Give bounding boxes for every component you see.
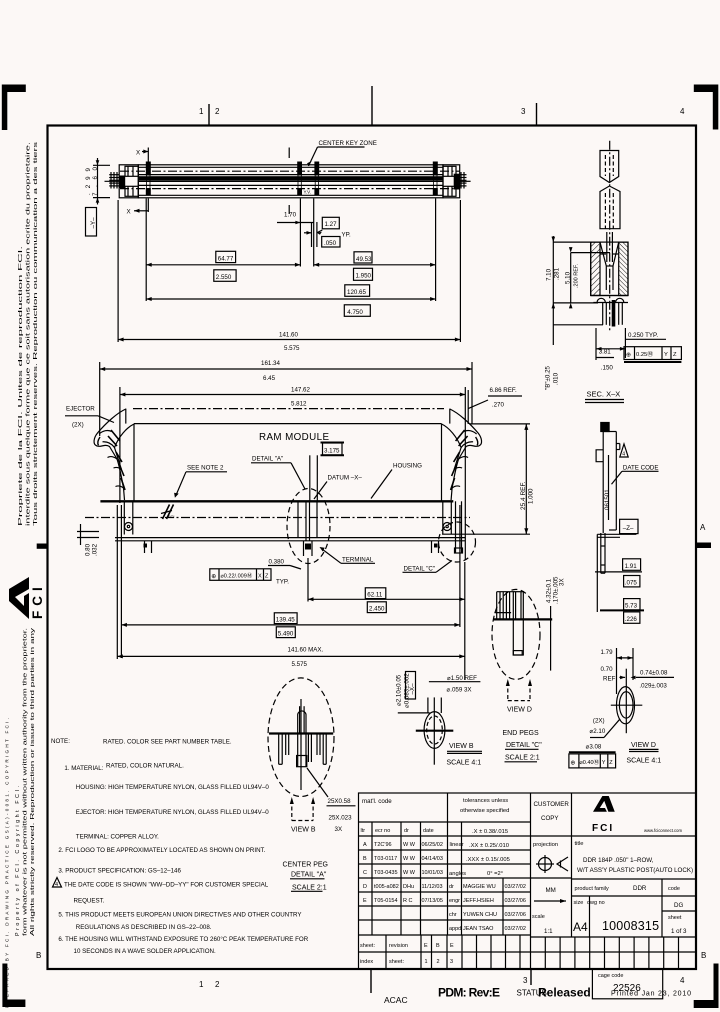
svg-text:⌀1.50 REF: ⌀1.50 REF [447, 675, 477, 682]
view B label [447, 743, 483, 767]
svg-text:1 of 3: 1 of 3 [671, 928, 687, 935]
end pegs detail circle [492, 589, 540, 679]
svg-text:DATE CODE: DATE CODE [623, 464, 659, 471]
date code profile [596, 423, 620, 534]
product family row [573, 885, 687, 935]
svg-text:form whatever is not permitted: form whatever is not permitted without w… [23, 628, 29, 936]
view D arrows bracket [506, 679, 532, 714]
view D dim 0.74 [619, 669, 674, 689]
top view left end black insert [119, 176, 125, 189]
dim line 120.65 [146, 297, 435, 301]
matl code table text [361, 798, 443, 904]
customer copy cell [534, 801, 570, 822]
svg-text:3: 3 [450, 959, 453, 965]
svg-text:appd: appd [449, 926, 461, 932]
front view housing opening [126, 409, 450, 501]
top view right end black insert [454, 174, 460, 190]
key block center 2 [314, 162, 319, 196]
svg-text:ltr: ltr [361, 828, 366, 834]
end pegs drawing [493, 592, 552, 671]
zone tick bottom edge [371, 969, 531, 993]
section line X-X vertical [148, 148, 289, 215]
frame border [48, 126, 697, 970]
svg-text:angles: angles [449, 871, 466, 877]
svg-text:06/25/02: 06/25/02 [422, 842, 443, 848]
svg-text:SEE NOTE 2: SEE NOTE 2 [187, 465, 224, 472]
svg-text:JEAN TSAO: JEAN TSAO [463, 926, 494, 932]
svg-text:SCALE 4:1: SCALE 4:1 [447, 760, 482, 767]
svg-text:B: B [701, 951, 706, 960]
zone tick right edge [697, 543, 712, 549]
french copyright text rotated [18, 141, 39, 526]
end peg right in detail C [455, 501, 463, 553]
svg-text:JEFF.HSIEH: JEFF.HSIEH [463, 898, 494, 904]
corner mark bottom-right [694, 964, 719, 1009]
svg-text:⌀3.08: ⌀3.08 [586, 743, 602, 750]
svg-text:3X: 3X [559, 578, 566, 586]
datum X label [314, 475, 362, 500]
dim 120.65/4.750 boxed [344, 285, 370, 317]
svg-text:T2C'96: T2C'96 [374, 842, 392, 848]
svg-text:Tous droits strictement reserv: Tous droits strictement reserves. Reprod… [33, 141, 39, 526]
svg-text:.XXX ± 0.15/.005: .XXX ± 0.15/.005 [466, 857, 510, 863]
svg-text:.226: .226 [625, 616, 638, 623]
svg-text:2. FCI LOGO TO BE APPROXIMATEL: 2. FCI LOGO TO BE APPROXIMATELY LOCATED … [58, 847, 265, 854]
svg-text:10/01/03: 10/01/03 [422, 870, 443, 876]
svg-text:.XX ± 0.25/.010: .XX ± 0.25/.010 [469, 843, 509, 849]
svg-text:25X.023: 25X.023 [329, 814, 353, 821]
svg-text:HOUSING: HIGH TEMPERATURE NYLO: HOUSING: HIGH TEMPERATURE NYLON, GLASS F… [76, 784, 270, 791]
svg-text:.029±.003: .029±.003 [639, 682, 667, 689]
svg-text:6. THE HOUSING WILL WITHSTAND: 6. THE HOUSING WILL WITHSTAND EXPOSURE T… [58, 936, 308, 943]
svg-text:4: 4 [680, 107, 685, 116]
svg-text:1.70: 1.70 [284, 212, 297, 219]
date code dims 1.91/.075 [595, 559, 642, 587]
housing label [371, 463, 422, 499]
dim 0.80/.032 rotated [85, 543, 99, 556]
dim 0.80/.032 ticks [77, 524, 99, 545]
svg-text:1.000: 1.000 [528, 488, 535, 504]
svg-text:10 SECONDS IN A WAVE SOLDER AP: 10 SECONDS IN A WAVE SOLDER APPLICATION. [74, 948, 217, 955]
zone numbers bottom [199, 976, 685, 989]
svg-text:ecr no: ecr no [375, 828, 390, 834]
svg-text:Printed Jan 23, 2010: Printed Jan 23, 2010 [611, 991, 691, 998]
svg-text:REGULATIONS AS DESCRIBED IN GS: REGULATIONS AS DESCRIBED IN GS–22–008. [76, 924, 212, 931]
datum Z box [620, 519, 638, 533]
svg-text:B: B [363, 856, 367, 862]
date code leg [597, 533, 636, 573]
svg-text:sheet:: sheet: [389, 959, 404, 965]
approvals text [449, 884, 526, 932]
key block center 1 [297, 162, 302, 196]
end pegs rotated dim [546, 576, 566, 604]
svg-text:⊕: ⊕ [570, 759, 575, 766]
zone tick left edge [37, 544, 48, 549]
svg-text:1. MATERIAL:: 1. MATERIAL: [64, 765, 103, 772]
svg-text:5.812: 5.812 [291, 401, 307, 408]
zone numbers top [199, 107, 685, 116]
svg-text:3. PRODUCT SPECIFICATION: GS–1: 3. PRODUCT SPECIFICATION: GS–12–146 [58, 868, 181, 875]
svg-text:RAM MODULE: RAM MODULE [259, 432, 329, 443]
svg-text:141.60: 141.60 [279, 332, 298, 339]
svg-text:161.34: 161.34 [261, 360, 280, 367]
sec x-x housing section hatched [591, 242, 628, 295]
date code text vertical [604, 489, 611, 510]
svg-text:sheet:: sheet: [360, 943, 375, 949]
svg-text:TERMINAL: COPPER ALLOY.: TERMINAL: COPPER ALLOY. [76, 834, 159, 841]
sec x-x base [591, 296, 628, 303]
scale cell [532, 914, 553, 935]
dim line 64.77 [146, 199, 300, 302]
svg-text:(2X): (2X) [593, 717, 605, 724]
svg-text:T03-0117: T03-0117 [374, 856, 397, 862]
svg-text:⌀.059 3X: ⌀.059 3X [447, 686, 472, 693]
svg-text:120.65: 120.65 [347, 289, 366, 296]
svg-text:25.4 REF.: 25.4 REF. [520, 481, 527, 510]
svg-text:linear: linear [450, 842, 464, 848]
sec x-x title [585, 390, 624, 403]
svg-text:DETAIL "C": DETAIL "C" [506, 742, 542, 749]
svg-text:2: 2 [215, 980, 220, 989]
top view left end block [105, 165, 139, 198]
center peg detail label [283, 862, 329, 892]
sec x-x centerline [609, 141, 611, 332]
key block right [433, 162, 438, 196]
svg-text:dr: dr [449, 884, 454, 890]
date code note triangle [620, 444, 628, 458]
terminal label [320, 547, 376, 564]
svg-text:code: code [668, 886, 680, 892]
svg-text:C: C [363, 870, 367, 876]
svg-text:W W: W W [403, 856, 416, 862]
Released text [538, 986, 591, 1000]
svg-text:date: date [423, 828, 434, 834]
notes text block [51, 738, 309, 955]
mounting pegs front view [145, 501, 439, 556]
svg-text:tolerances unless: tolerances unless [463, 798, 508, 804]
key slot vertical lines [147, 176, 438, 189]
top view right end block [443, 165, 471, 198]
svg-text:3.175: 3.175 [324, 448, 340, 455]
svg-text:0.74±0.08: 0.74±0.08 [640, 669, 668, 676]
sec x-x dim 3.81 [596, 328, 625, 371]
svg-text:DETAIL "C": DETAIL "C" [404, 566, 436, 573]
svg-text:cage code: cage code [598, 973, 623, 979]
svg-text:chr: chr [449, 912, 457, 918]
svg-text:1:1: 1:1 [544, 928, 553, 935]
svg-text:engr: engr [449, 898, 460, 904]
svg-text:03/27/06: 03/27/06 [505, 912, 526, 918]
datum X box rotated [406, 672, 417, 700]
detail A label [251, 456, 305, 490]
dim 1.27 typ boxed [304, 217, 351, 247]
svg-text:62.11: 62.11 [367, 591, 383, 598]
svg-text:VIEW B: VIEW B [291, 827, 316, 834]
cage code box [592, 969, 662, 999]
view D 2X labels [590, 717, 621, 737]
dim 147.62/5.812 [120, 387, 465, 561]
svg-text:COPY: COPY [541, 815, 559, 822]
corner mark top-left [2, 85, 26, 131]
svg-text:5.73: 5.73 [625, 603, 638, 610]
svg-text:sheet: sheet [668, 915, 682, 921]
svg-text:6.86 REF.: 6.86 REF. [490, 387, 517, 394]
svg-text:0.70: 0.70 [601, 666, 614, 673]
svg-text:VIEW D: VIEW D [507, 707, 532, 714]
dim line 49.53 [314, 199, 436, 302]
svg-text:X: X [136, 150, 140, 157]
left ejector [94, 409, 134, 535]
svg-text:11/12/03: 11/12/03 [422, 884, 443, 890]
svg-text:SCALE 2:1: SCALE 2:1 [505, 755, 540, 762]
svg-text:T03-0435: T03-0435 [374, 870, 398, 876]
PDM rev text [438, 986, 500, 1000]
center peg leader and 25X label [307, 768, 356, 833]
svg-text:5.575: 5.575 [284, 345, 300, 352]
svg-text:07/13/05: 07/13/05 [422, 898, 443, 904]
svg-text:MAGGIE WU: MAGGIE WU [463, 884, 496, 890]
top view centerline upper [120, 170, 460, 172]
svg-text:3X: 3X [335, 826, 343, 833]
svg-text:0.80: 0.80 [85, 543, 92, 556]
svg-text:VIEW D: VIEW D [631, 742, 656, 749]
svg-text:3.81: 3.81 [599, 348, 612, 355]
sec x-x dim B [545, 330, 560, 390]
svg-text:0.250 TYP.: 0.250 TYP. [628, 332, 658, 339]
RAM MODULE label [259, 432, 329, 443]
svg-text:1.91: 1.91 [625, 563, 638, 570]
svg-text:W/T ASS'Y PLASTIC POST(AUTO LO: W/T ASS'Y PLASTIC POST(AUTO LOCK) [577, 867, 693, 874]
note 4 triangle [53, 878, 62, 889]
svg-text:t005-a082: t005-a082 [374, 884, 399, 890]
svg-text:1: 1 [199, 980, 204, 989]
svg-text:⊕: ⊕ [211, 573, 216, 580]
svg-text:DG: DG [674, 902, 683, 909]
svg-text:END PEGS: END PEGS [503, 730, 540, 737]
detail C indicator circle [439, 522, 476, 562]
view D dims 1.79 / 0.70 REF [601, 648, 634, 694]
end pegs detail label [503, 730, 543, 762]
svg-text:2.550: 2.550 [216, 274, 232, 281]
view B arrows bracket [290, 797, 316, 834]
section arrow X bottom [127, 209, 149, 216]
sec x-x dims left [546, 236, 611, 330]
svg-text:.075: .075 [625, 580, 638, 587]
svg-text:⌀0.40Ⓜ: ⌀0.40Ⓜ [580, 758, 600, 766]
view D label [627, 742, 662, 764]
svg-text:D: D [363, 884, 367, 890]
svg-text:5. THIS PRODUCT MEETS EUROPEAN: 5. THIS PRODUCT MEETS EUROPEAN UNION DIR… [58, 912, 301, 919]
typ mark small [304, 190, 312, 195]
svg-text:7.10: 7.10 [546, 268, 553, 281]
svg-text:EJECTOR: HIGH TEMPERATURE NYLO: EJECTOR: HIGH TEMPERATURE NYLON, GLASS F… [76, 809, 269, 816]
sec x-x card in slot [607, 232, 613, 262]
key block left [146, 162, 151, 196]
zone letter B right edge [701, 951, 706, 960]
svg-text:5.575: 5.575 [292, 661, 308, 668]
svg-text:0° =2°: 0° =2° [487, 871, 503, 877]
svg-text:mat'l. code: mat'l. code [362, 798, 392, 805]
svg-text:.050: .050 [324, 240, 337, 247]
svg-text:2.450: 2.450 [369, 605, 385, 612]
svg-text:CENTER KEY ZONE: CENTER KEY ZONE [319, 140, 377, 147]
center peg detail drawing [269, 699, 333, 790]
svg-text:–Z–: –Z– [623, 525, 634, 532]
svg-text:4.750: 4.750 [347, 309, 363, 316]
corner mark top-right [694, 85, 719, 130]
date code dims 5.73/.226 [597, 534, 644, 623]
svg-text:SEC. X–X: SEC. X–X [587, 390, 621, 399]
svg-text:THE DATE CODE IS SHOWN "WW–DD–: THE DATE CODE IS SHOWN "WW–DD–YY" FOR CU… [64, 882, 269, 889]
svg-text:HOUSING: HOUSING [393, 463, 422, 470]
svg-text:EJECTOR: EJECTOR [66, 406, 95, 413]
detail A indicator circle [287, 489, 330, 564]
svg-text:DDR: DDR [633, 885, 647, 892]
dim 2.10 rotated labels [396, 673, 411, 708]
detail C label [403, 561, 453, 573]
view D 3.08 and position box [569, 743, 616, 768]
svg-text:YP.: YP. [342, 232, 351, 239]
svg-text:E: E [450, 943, 454, 949]
svg-text:size: size [574, 900, 584, 906]
ACAC stamp [384, 995, 408, 1005]
svg-text:REF: REF [603, 675, 616, 682]
svg-text:product family: product family [575, 886, 609, 892]
dim 161.34/6.45 [100, 360, 472, 436]
svg-text:Y.V.: Y.V. [304, 190, 312, 195]
svg-text:X: X [127, 209, 131, 216]
svg-text:1.27: 1.27 [325, 221, 338, 228]
sec x-x card upper [600, 151, 619, 183]
svg-text:Released: Released [538, 986, 591, 1000]
svg-text:03/27/02: 03/27/02 [505, 926, 526, 932]
svg-text:03/27/06: 03/27/06 [505, 898, 526, 904]
svg-text:RATED, COLOR NATURAL.: RATED, COLOR NATURAL. [106, 763, 184, 770]
dim 49.53/1.950 boxed [354, 252, 373, 280]
svg-text:scale: scale [532, 914, 545, 920]
svg-text:Y: Y [664, 352, 668, 358]
view B peg circles [398, 697, 454, 764]
front view lower centerline [85, 517, 470, 519]
svg-text:FCI: FCI [30, 582, 45, 619]
dim 62.11/2.450 boxed [308, 558, 465, 680]
svg-text:SCALE 4:1: SCALE 4:1 [627, 757, 662, 764]
svg-text:W W: W W [403, 870, 416, 876]
sec x-x position box [624, 347, 681, 362]
svg-text:E: E [424, 943, 428, 949]
svg-text:DETAIL "A": DETAIL "A" [252, 456, 283, 463]
svg-text:061501: 061501 [604, 489, 611, 510]
sec x-x pins [603, 303, 623, 325]
dim 139.45/5.490 boxed [121, 505, 460, 658]
svg-text:REQUEST.: REQUEST. [74, 898, 105, 905]
dim 141.60 MAX front view [117, 505, 465, 668]
svg-text:W W: W W [403, 842, 416, 848]
svg-text:.270: .270 [492, 402, 505, 409]
terminal dots [144, 544, 438, 550]
svg-text:CENTER PEG: CENTER PEG [283, 862, 329, 869]
svg-text:E: E [363, 898, 367, 904]
svg-text:141.60 MAX.: 141.60 MAX. [288, 647, 324, 654]
dim 1.70 [277, 199, 314, 267]
revision index rows [386, 935, 679, 969]
date code label [612, 464, 659, 484]
svg-text:PDM: Rev:E: PDM: Rev:E [438, 986, 500, 1000]
corner mark bottom-left [2, 964, 25, 1008]
svg-text:Z: Z [673, 352, 677, 358]
svg-text:MM: MM [546, 887, 556, 894]
svg-text:–X–: –X– [409, 683, 416, 695]
svg-text:dwg no: dwg no [587, 900, 605, 906]
svg-text:.010: .010 [553, 372, 560, 385]
english copyright text rotated [5, 627, 37, 1008]
svg-text:64.77: 64.77 [218, 255, 234, 262]
title cell [575, 841, 694, 874]
svg-text:All rights strictly reserved.: All rights strictly reserved. Reproducti… [30, 627, 36, 936]
svg-text:25X0.58: 25X0.58 [328, 798, 352, 805]
projection cell [533, 842, 568, 873]
FCI logo left edge rotated [9, 577, 45, 619]
svg-text:TYP.: TYP. [276, 579, 289, 586]
svg-text:VIEW B: VIEW B [449, 743, 474, 750]
right ejector [442, 409, 482, 535]
svg-text:0.380: 0.380 [269, 559, 285, 566]
front view card centerline [133, 408, 444, 410]
top view slot black band [138, 176, 443, 180]
svg-text:dr: dr [404, 828, 409, 834]
zone letter B left edge [36, 951, 41, 960]
svg-text:5.10: 5.10 [565, 271, 572, 284]
svg-text:4.32±0.1: 4.32±0.1 [546, 578, 553, 603]
dim 0.380 typ with position box [210, 559, 301, 586]
svg-text:B: B [436, 943, 440, 949]
svg-text:otherwise specified: otherwise specified [460, 808, 509, 814]
svg-text:.281: .281 [554, 267, 561, 280]
svg-text:A4: A4 [573, 920, 588, 934]
zone ticks top edge [209, 86, 537, 125]
svg-text:TERMINAL: TERMINAL [342, 557, 374, 564]
svg-text:49.53: 49.53 [356, 256, 372, 263]
svg-text:YUWEN CHU: YUWEN CHU [463, 912, 497, 918]
svg-text:"B"±0.25: "B"±0.25 [545, 365, 552, 390]
svg-text:1.950: 1.950 [356, 273, 372, 280]
svg-text:3: 3 [521, 107, 526, 116]
svg-text:147.62: 147.62 [291, 387, 310, 394]
svg-text:ACAC: ACAC [384, 995, 408, 1005]
svg-text:139.45: 139.45 [276, 616, 295, 623]
center key zone label [307, 140, 377, 166]
view D circles [611, 669, 643, 734]
dim 1.50 REF labels [429, 675, 481, 694]
svg-text:1: 1 [425, 959, 428, 965]
dim 141.60/5.575 top view [118, 200, 460, 352]
svg-text:1.79: 1.79 [601, 649, 614, 656]
ejector label [65, 406, 114, 429]
svg-text:DHu: DHu [403, 884, 414, 890]
svg-text:⌀0.22/.009Ⓜ: ⌀0.22/.009Ⓜ [221, 571, 253, 579]
svg-text:R C: R C [403, 898, 413, 904]
svg-text:4: 4 [622, 452, 625, 458]
svg-text:04/14/03: 04/14/03 [422, 856, 443, 862]
svg-text:index: index [360, 959, 373, 965]
svg-text:CUSTOMER: CUSTOMER [534, 801, 570, 808]
dim 3.175 boxed [321, 443, 345, 456]
svg-text:0.25Ⓜ: 0.25Ⓜ [636, 350, 653, 358]
svg-text:www.fciconnect.com: www.fciconnect.com [644, 828, 682, 833]
dim 64.77/2.550 boxed [214, 251, 236, 281]
svg-text:⊕: ⊕ [626, 352, 631, 359]
svg-text:projection: projection [533, 842, 558, 848]
